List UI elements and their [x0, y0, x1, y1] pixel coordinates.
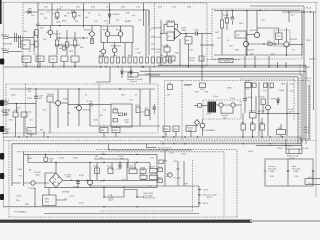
filter F2 circle: [231, 103, 235, 107]
page right border: [315, 2, 317, 197]
resistor row rB10: [151, 57, 154, 63]
svg-text:INPUT 4: INPUT 4: [1, 111, 10, 113]
diode bridge small diamond: [194, 120, 199, 126]
resistor row rB11: [157, 57, 160, 63]
capacitor bank C60: [245, 82, 251, 87]
scan edge blob 5: [0, 153, 4, 160]
resistor row rA3: [49, 56, 57, 63]
wire emitter rail: [249, 43, 284, 45]
node dot p1: [267, 113, 268, 114]
svg-text:100uF: 100uF: [249, 111, 256, 113]
mains sub dashed box: [203, 100, 241, 119]
svg-text:Chute: Chute: [189, 59, 195, 62]
bottom module drops: [97, 163, 150, 181]
wire 4TR upper stubs: [243, 113, 281, 130]
transistor Q10: [284, 42, 289, 47]
node dot p2: [286, 113, 287, 114]
node dot b2: [286, 54, 287, 55]
node dot lowA10: [261, 136, 262, 137]
svg-text:1M: 1M: [95, 156, 98, 158]
svg-text:1,5uF: 1,5uF: [116, 168, 122, 170]
transformer T1 hatch: [209, 102, 214, 113]
svg-text:0,1uF: 0,1uF: [87, 101, 93, 103]
svg-text:BD139L: BD139L: [250, 30, 258, 32]
svg-text:T.B.L.: T.B.L.: [294, 176, 300, 178]
wire c31 out: [92, 103, 111, 105]
node dots low B: [162, 143, 163, 144]
svg-text:PHONES: PHONES: [1, 129, 10, 131]
node dot bo3: [86, 180, 87, 181]
resistor row rB8: [140, 57, 143, 63]
box tone out2: [112, 127, 120, 132]
node dot opamp in: [160, 33, 161, 34]
svg-text:Down: Down: [108, 200, 114, 202]
wire Q8 collector: [256, 10, 258, 32]
svg-text:BC413C: BC413C: [54, 34, 62, 36]
transistor Q9: [243, 41, 248, 46]
svg-text:BC184: BC184: [48, 94, 55, 96]
resistor R41: [225, 18, 228, 23]
node dot pm2: [89, 162, 90, 163]
scan edge blob 6: [0, 173, 4, 179]
dashed module bottom second: [160, 141, 302, 143]
scan edge blob 7: [0, 194, 4, 200]
svg-text:PC-180: PC-180: [174, 178, 182, 180]
wire drops to bus: [201, 34, 203, 67]
transistor Q3: [105, 32, 110, 37]
node dot bus7: [254, 66, 255, 67]
wire R41 stubs: [226, 10, 228, 30]
diode D8: [277, 97, 280, 105]
node dot bus1: [37, 66, 38, 67]
rail top feed: [250, 5, 304, 7]
input jack J2: [3, 50, 9, 52]
svg-text:PL,21: PL,21: [306, 8, 312, 10]
rail driver bottom: [214, 54, 302, 56]
dashed internal x25: [25, 84, 27, 133]
node dot U1 out: [185, 33, 186, 34]
filter F1 leads: [215, 104, 231, 106]
resistor row ps4: [140, 175, 147, 179]
svg-text:SW(A750): SW(A750): [111, 45, 121, 48]
wire drops tone: [140, 89, 150, 126]
wire node to R3: [14, 31, 34, 52]
node dot pm1: [55, 162, 56, 163]
tone PCB dashed outline: [6, 84, 158, 133]
svg-text:C107: C107: [140, 174, 146, 176]
wire nest extend: [298, 140, 306, 144]
page left border: [2, 2, 4, 207]
node dot ps3: [136, 154, 137, 155]
wire right col x157: [156, 154, 158, 187]
svg-text:63V: 63V: [289, 111, 293, 113]
scan edge blob 2: [0, 59, 4, 65]
dashed nest: [240, 79, 294, 120]
amp input boxes g1: [159, 160, 163, 164]
wire Q9 leads: [245, 38, 247, 55]
node dot r1: [288, 11, 289, 12]
svg-text:35V: 35V: [246, 89, 250, 91]
scan edge blob 4: [0, 126, 4, 132]
rail VCC preamp: [38, 9, 149, 11]
resistor row rA5: [71, 56, 79, 62]
svg-text:10uF: 10uF: [248, 151, 253, 153]
wire pm left: [27, 154, 29, 162]
resistor R52: [113, 110, 118, 113]
Q7 leads: [114, 43, 116, 58]
scan bottom dark bar fade: [250, 220, 320, 222]
svg-text:LM: LM: [237, 35, 240, 37]
rail ps top: [24, 153, 157, 155]
row box ticks: [26, 62, 75, 67]
node dot z2: [136, 196, 137, 197]
svg-text:BL,21: BL,21: [306, 78, 312, 80]
resistor R53: [119, 113, 123, 116]
resistor R10: [73, 13, 77, 18]
Q15 leads: [89, 163, 91, 188]
dot r7: [117, 66, 118, 67]
wire rail drop x83: [83, 10, 85, 28]
svg-text:18R: 18R: [235, 50, 239, 52]
svg-text:50V: 50V: [39, 98, 43, 100]
svg-text:470R: 470R: [79, 175, 84, 177]
resistor row rB3: [111, 57, 114, 63]
amp input boxes g3: [158, 179, 162, 183]
wire supply drop: [37, 3, 39, 66]
rail low A: [3, 136, 301, 138]
svg-text:BC413: BC413: [116, 30, 123, 32]
box PT St-MCD: [219, 58, 233, 62]
resistor row rB2: [105, 57, 108, 63]
SW1 contacts: [289, 149, 299, 154]
svg-text:R185: R185: [164, 129, 170, 131]
resistor strip rM7: [260, 124, 265, 130]
feedback network box F2: [167, 32, 174, 41]
wire seq drop: [149, 67, 151, 84]
resistor row rB6: [128, 57, 131, 63]
svg-text:0,47uF: 0,47uF: [246, 97, 253, 99]
wire stub tr: [151, 28, 156, 49]
wire j3 j4 link: [15, 104, 17, 113]
node dot lowA12: [282, 136, 283, 137]
node dot bus10: [285, 66, 286, 67]
resistor R66: [270, 83, 274, 87]
svg-text:0,47uF: 0,47uF: [162, 46, 169, 48]
rail tone mid: [68, 103, 91, 105]
transistor Q16: [168, 173, 172, 177]
svg-text:Switch: Switch: [289, 157, 296, 160]
diode D5: [121, 67, 124, 78]
resistor row rB1: [99, 57, 102, 63]
node dot bl2: [123, 187, 124, 188]
resistor R56: [136, 107, 140, 113]
node dot lowB3: [184, 143, 185, 144]
dashed internal x99: [98, 84, 100, 133]
power PCB dashed outline: [165, 81, 311, 140]
filter F1 circle: [219, 103, 223, 107]
wire q11 up: [67, 89, 69, 103]
resistor R60: [261, 99, 265, 105]
node dot tbl2: [312, 170, 314, 172]
svg-text:R120: R120: [181, 154, 187, 156]
svg-text:C105: C105: [59, 158, 65, 160]
scan edge blob 3: [0, 100, 4, 106]
svg-text:SL-16: SL-16: [308, 177, 314, 179]
svg-text:C100: C100: [93, 166, 99, 168]
node dot lowA9: [252, 136, 253, 137]
pot VR2: [65, 42, 69, 47]
svg-text:BC413C: BC413C: [84, 30, 92, 32]
node dot lowA3: [47, 136, 48, 137]
wire right riser C: [308, 85, 310, 140]
node dot d1: [232, 10, 233, 11]
wire ps bottom link: [44, 213, 199, 215]
capacitor C35: [153, 107, 156, 109]
scan edge blob 1: [0, 0, 2, 24]
wire opamp input rail: [161, 20, 167, 45]
dot r5: [74, 66, 75, 67]
wire sw05: [184, 84, 192, 86]
resistor R57: [145, 110, 149, 116]
svg-text:MUR 154: MUR 154: [271, 99, 281, 101]
svg-text:0,01u: 0,01u: [213, 96, 219, 98]
resistor strip rM5: [241, 124, 246, 130]
svg-text:1M: 1M: [44, 18, 47, 20]
svg-text:BD139L: BD139L: [290, 39, 298, 41]
resistor R54: [113, 119, 118, 122]
node dot bus6: [244, 66, 245, 67]
scan bottom dark bar: [0, 220, 252, 223]
svg-text:BD140L: BD140L: [247, 50, 255, 52]
svg-text:2x10k: 2x10k: [259, 97, 266, 99]
svg-text:T2A: T2A: [204, 91, 208, 94]
resistor row rA2: [36, 56, 44, 62]
svg-text:10uF: 10uF: [79, 203, 84, 205]
svg-text:PT NUMBER: PT NUMBER: [203, 130, 216, 132]
svg-text:TR/B: TR/B: [156, 28, 161, 30]
wire zig main: [104, 188, 144, 197]
rail top feed2: [282, 11, 316, 13]
svg-text:220uF: 220uF: [149, 167, 156, 169]
node dot bo1: [70, 180, 71, 181]
speaker stub 2: [198, 194, 201, 195]
svg-text:PT/DIN: PT/DIN: [28, 188, 35, 190]
svg-text:PT St-MCD: PT St-MCD: [221, 60, 232, 63]
rail tone top: [10, 88, 155, 90]
node dot lowB4: [242, 143, 243, 144]
svg-text:1B-1M: 1B-1M: [309, 59, 315, 61]
node dot lowA5: [173, 136, 174, 137]
dashed net x300: [299, 64, 301, 140]
dot r4: [63, 66, 64, 67]
capacitor C41 box: [250, 113, 257, 119]
driver PCB dashed outline: [212, 9, 302, 59]
svg-text:100uF: 100uF: [245, 81, 252, 83]
Q2 leads: [88, 26, 92, 42]
wire mains feed: [256, 145, 302, 147]
switch contacts S1: [15, 33, 21, 48]
svg-text:filter: filter: [223, 116, 227, 119]
wire x52 drop: [51, 3, 53, 26]
node dot lowB2: [173, 143, 174, 144]
wire reverb riser: [146, 144, 156, 148]
wire tone out drops: [104, 126, 116, 137]
preamp PCB dashed outline: [23, 3, 207, 66]
wire q16 col: [165, 152, 184, 186]
filter F2 leads: [221, 105, 241, 113]
node dot d3: [259, 10, 260, 11]
svg-text:BC184L: BC184L: [83, 110, 91, 112]
connector box K1: [13, 112, 18, 117]
transistor Q5: [62, 46, 66, 50]
resistor row ps3: [150, 168, 158, 173]
wire riser x287: [286, 82, 288, 136]
wire R10 stubs: [73, 10, 75, 20]
bridge rectifier BR1: [49, 173, 62, 188]
wire mid rail: [56, 37, 88, 39]
resistor R19: [91, 39, 94, 44]
Q6 leads: [99, 43, 103, 58]
top stub drops: [84, 3, 144, 10]
mains switch SW1 box: [286, 149, 302, 154]
dashed power inner: [181, 81, 183, 140]
inner dashed top: [17, 152, 224, 217]
svg-text:220R: 220R: [27, 98, 32, 100]
wire link from preamp: [207, 33, 212, 35]
fuse FU2: [44, 157, 47, 161]
svg-text:4TR: 4TR: [250, 123, 254, 125]
wire output right: [301, 10, 303, 55]
node dot bias: [59, 25, 60, 26]
capacitor C50: [76, 181, 80, 183]
node dot mid1: [59, 37, 60, 38]
page top border: [0, 1, 318, 3]
box 0.4k: [166, 56, 175, 61]
capacitor C51: [118, 165, 122, 167]
svg-text:C+R: C+R: [50, 59, 55, 61]
wire C9 out: [197, 33, 207, 35]
dashed link line: [207, 59, 240, 61]
svg-text:BC413: BC413: [103, 30, 110, 32]
input jack J4: [3, 113, 9, 115]
svg-text:LF01: LF01: [207, 114, 213, 116]
wire U1 output: [181, 33, 195, 35]
node dot bus8: [268, 66, 269, 67]
node dot rail b: [109, 9, 110, 10]
wire table out1: [305, 178, 320, 180]
wire left stub: [96, 67, 110, 82]
node dots low A: [18, 136, 19, 137]
node dot bo2: [77, 180, 78, 181]
dot r3: [52, 66, 53, 67]
wire VR1: [56, 30, 58, 55]
dashed reverb bus: [96, 148, 237, 150]
wire seq out: [138, 75, 160, 82]
wire tp1: [194, 104, 207, 106]
dot r8: [129, 66, 130, 67]
resistor R44 emitter: [268, 43, 272, 46]
svg-text:Filtered Down: Filtered Down: [143, 197, 157, 200]
wire c41: [252, 82, 256, 113]
svg-text:1N4007: 1N4007: [129, 167, 137, 169]
svg-text:PT NUMBER: PT NUMBER: [14, 212, 27, 214]
node dot lowA11: [269, 136, 270, 137]
capacitor C31: [90, 103, 92, 106]
resistor R50: [47, 96, 53, 102]
node dot bo4: [103, 180, 104, 181]
Q11 leads: [53, 89, 58, 128]
svg-text:1M: 1M: [23, 45, 26, 47]
svg-text:1N4148: 1N4148: [112, 14, 120, 16]
Q4 leads: [110, 26, 121, 43]
speaker table box: [265, 159, 313, 186]
resistor strip rM6: [251, 124, 256, 130]
feedback network R/C box F1: [167, 22, 175, 27]
wire R40: [221, 10, 223, 55]
svg-text:-1N: -1N: [53, 182, 57, 184]
svg-text:DC43: DC43: [203, 190, 209, 192]
node dot t3: [119, 88, 120, 89]
capacitor C9: [196, 32, 198, 36]
wire strip drops: [31, 131, 191, 137]
wire c35: [153, 104, 155, 114]
phones jack J6: [3, 131, 9, 133]
svg-text:1,8k 1uF: 1,8k 1uF: [167, 21, 176, 23]
svg-text:40R: 40R: [188, 130, 192, 132]
capacitor C8 box: [164, 47, 170, 52]
Q3 leads: [107, 26, 109, 43]
wire pwr drop: [201, 67, 203, 81]
C51 wire: [119, 163, 121, 170]
dot r2: [39, 66, 40, 67]
resistor row rA1: [22, 56, 31, 63]
diode D1: [25, 11, 39, 14]
regulator U5 box: [43, 195, 57, 206]
rail V+ driver: [214, 9, 300, 11]
node dot pm4: [119, 162, 120, 163]
svg-text:400V: 400V: [66, 177, 71, 179]
node dot ps1: [45, 154, 46, 155]
mid pot box VR4: [185, 37, 192, 45]
wire u5: [35, 188, 66, 207]
wire R7 stubs: [56, 10, 58, 20]
amp input boxes g2: [158, 168, 162, 172]
node dot r2: [303, 11, 304, 12]
rail low B: [12, 137, 301, 186]
svg-text:1,800: 1,800: [269, 171, 275, 173]
node dot d2: [246, 10, 247, 11]
svg-text:PPTO: PPTO: [23, 59, 29, 61]
wire power out rail: [256, 113, 300, 115]
wire C22: [257, 28, 279, 44]
wire r60: [259, 82, 263, 136]
node dot tbl: [287, 170, 289, 172]
Q16 pointer: [167, 174, 169, 177]
node dot lowA2: [26, 136, 27, 137]
node dot b1: [246, 54, 247, 55]
wire k drop: [16, 117, 25, 137]
power supply dashed outline left: [9, 141, 237, 218]
resistor R3 box: [35, 30, 38, 36]
transistor Q1: [48, 30, 53, 35]
node dot lowA4: [162, 136, 163, 137]
node dot pbl2: [136, 206, 137, 207]
svg-text:B.B.: B.B.: [270, 176, 274, 178]
transformer T1 core: [208, 102, 217, 113]
transistor Q12: [77, 106, 82, 111]
wire VR2: [66, 30, 68, 55]
resistor row rB4: [116, 57, 119, 63]
